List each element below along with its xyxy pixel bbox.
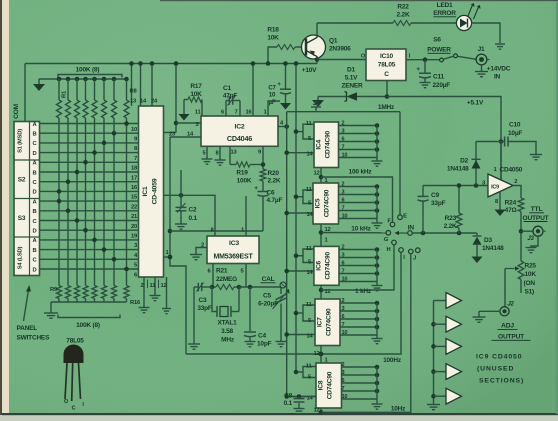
wire switch row to IC1 pin 22 — [40, 200, 139, 202]
resistor R22 — [393, 21, 411, 26]
svg-text:100 kHz: 100 kHz — [349, 169, 373, 176]
wire IC1 pin13 riser — [131, 64, 133, 107]
potentiometer R25 — [518, 261, 524, 280]
svg-text:R8: R8 — [129, 89, 137, 95]
resistor R6 — [102, 77, 107, 82]
ground at C4 — [245, 341, 256, 343]
svg-text:R21: R21 — [216, 268, 228, 275]
ground at IC3 pin2 — [190, 254, 202, 256]
wire IC1 pin24 riser — [151, 64, 153, 107]
resistor R24 — [518, 198, 524, 212]
svg-text:ZENER: ZENER — [341, 83, 363, 90]
wire IC3 pin2 — [196, 248, 207, 255]
wire IC3 pin6 — [212, 264, 214, 288]
page right edge — [556, 2, 558, 414]
resistor R23 — [458, 186, 460, 214]
junction R12 to row 12 — [83, 228, 88, 233]
wire IC1 pin11 to ground — [154, 277, 156, 296]
svg-text:10: 10 — [342, 153, 348, 159]
svg-text:100K (8): 100K (8) — [76, 67, 100, 74]
wire riser to IC2 pin3 — [176, 122, 201, 124]
resistor R18 — [277, 45, 295, 50]
ground at C7 — [280, 103, 291, 110]
svg-text:0.1: 0.1 — [284, 400, 293, 407]
wire switch row to IC1 pin 5 — [40, 258, 139, 260]
contact IN wiper — [408, 231, 413, 236]
svg-text:6: 6 — [342, 378, 345, 384]
svg-text:13: 13 — [130, 99, 137, 105]
wire IC1 to IC3 pin8 — [164, 195, 216, 236]
svg-text:IC5: IC5 — [315, 198, 322, 208]
junction R11 to row 11 — [75, 218, 80, 223]
svg-text:+: + — [416, 66, 420, 73]
wire 1kHz tap — [321, 245, 394, 290]
svg-text:J: J — [413, 256, 416, 262]
svg-text:13: 13 — [230, 150, 237, 156]
svg-text:2: 2 — [342, 121, 345, 127]
svg-text:100K (8): 100K (8) — [76, 322, 100, 329]
svg-text:22MEG: 22MEG — [216, 276, 237, 283]
svg-text:IC9 CD4050: IC9 CD4050 — [476, 354, 522, 361]
svg-text:7: 7 — [342, 206, 345, 212]
svg-text:7: 7 — [234, 110, 237, 116]
wire switch row to IC1 pin 6 — [40, 268, 139, 270]
ground at C3 — [188, 343, 200, 345]
svg-text:D: D — [33, 190, 37, 196]
wire IC7 pin 14 — [287, 334, 315, 336]
wire feedback riser — [170, 137, 186, 354]
svg-text:11: 11 — [306, 187, 313, 193]
svg-text:10: 10 — [269, 93, 276, 99]
crystal XTAL1 — [212, 287, 217, 312]
svg-text:17: 17 — [131, 175, 137, 181]
resistor R21 — [212, 286, 216, 288]
counter IC4 CD74C90 — [314, 122, 339, 168]
svg-text:7: 7 — [342, 145, 345, 151]
ground at IC1 pin11 — [150, 295, 161, 297]
svg-text:3: 3 — [342, 306, 345, 312]
svg-text:18: 18 — [131, 166, 138, 172]
svg-text:C3: C3 — [199, 297, 207, 304]
svg-text:IC9: IC9 — [491, 184, 499, 190]
svg-text:1 kHz: 1 kHz — [355, 288, 372, 295]
svg-text:2: 2 — [514, 179, 517, 185]
wire IC8 pin 12 cascade — [320, 408, 322, 412]
wire switch row to IC1 pin 21 — [40, 210, 139, 212]
svg-text:+10V: +10V — [302, 67, 317, 74]
wire IC1 pin14 riser — [140, 64, 142, 107]
78L05 package drawing — [64, 345, 84, 364]
svg-text:CD74C90: CD74C90 — [324, 189, 331, 217]
contact F — [390, 222, 395, 227]
junction R2 to row 7 — [66, 179, 71, 184]
svg-text:CD4046: CD4046 — [227, 134, 252, 143]
capacitor C9 — [422, 201, 424, 233]
svg-text:C5: C5 — [263, 293, 271, 300]
svg-text:6-20pF: 6-20pF — [258, 301, 278, 308]
svg-text:10: 10 — [342, 330, 348, 336]
svg-text:7: 7 — [342, 386, 345, 392]
svg-text:10: 10 — [131, 127, 137, 133]
svg-text:D1: D1 — [347, 67, 355, 74]
svg-text:C1: C1 — [223, 85, 231, 92]
diode D2 — [475, 142, 477, 186]
wire 10Hz tap — [321, 254, 411, 412]
ground at J3 — [526, 247, 537, 249]
contact J — [416, 248, 421, 253]
wire J1 to ground — [481, 65, 483, 72]
ground at IC2 pin5 — [206, 146, 208, 159]
svg-text:6: 6 — [342, 261, 345, 267]
wire COM bus riser — [24, 64, 26, 122]
svg-text:R18: R18 — [267, 27, 279, 34]
svg-text:3: 3 — [342, 253, 345, 259]
wire IC9 output — [513, 186, 521, 199]
svg-text:14: 14 — [306, 333, 313, 339]
ground at J1 — [475, 71, 488, 73]
svg-text:14: 14 — [140, 99, 147, 105]
resistor R5 — [92, 77, 97, 82]
resistor R11 — [75, 286, 80, 299]
svg-text:2.2K: 2.2K — [444, 223, 457, 230]
wire switch row to IC1 pin 17 — [40, 171, 139, 173]
svg-text:33pF: 33pF — [197, 305, 212, 312]
svg-text:D: D — [33, 267, 37, 273]
svg-text:21: 21 — [131, 214, 138, 220]
svg-text:IC10: IC10 — [380, 53, 394, 60]
wire IN line — [413, 232, 477, 234]
svg-text:47Ω: 47Ω — [505, 207, 517, 214]
capacitor C7 — [285, 64, 287, 89]
svg-text:R19: R19 — [236, 170, 248, 177]
ground at C11 — [420, 82, 431, 84]
svg-text:IC8: IC8 — [318, 380, 325, 390]
wire Q1 emitter to +10V rail — [316, 57, 318, 64]
wire IC1 pin2 to ground — [143, 277, 145, 308]
svg-text:IC1: IC1 — [142, 186, 149, 196]
wire unused buffer bus — [433, 301, 435, 405]
resistor R8 — [124, 77, 129, 82]
capacitor C10 — [476, 141, 505, 143]
svg-text:100K: 100K — [237, 178, 252, 185]
svg-text:2: 2 — [342, 182, 345, 188]
wire IC2 pin14 feedback — [170, 136, 201, 138]
resistor R12 — [83, 286, 88, 299]
buffer IC9 CD4050 — [488, 174, 513, 197]
trimmer capacitor C5 — [280, 287, 282, 294]
counter IC5 CD74C90 — [313, 183, 339, 224]
jack J1 — [476, 54, 487, 65]
svg-text:SWITCHES: SWITCHES — [17, 335, 51, 342]
ground stub near IC4 — [315, 107, 317, 112]
svg-text:J2: J2 — [507, 302, 514, 308]
wire VCO 1MHz rail — [286, 112, 288, 397]
svg-text:C: C — [72, 406, 76, 412]
page top edge — [160, 0, 558, 1]
svg-text:CD4050: CD4050 — [500, 167, 523, 174]
resistor R10 — [66, 286, 71, 299]
wire IC5 pin 14 — [287, 212, 313, 214]
junction R4 to row 5 — [83, 160, 88, 165]
wire IC7 pins 11 5 bracket — [303, 305, 315, 321]
svg-text:CD-4059: CD-4059 — [152, 178, 159, 204]
svg-text:220µF: 220µF — [433, 82, 451, 89]
svg-text:B: B — [33, 170, 37, 176]
svg-text:6: 6 — [342, 198, 345, 204]
svg-text:C7: C7 — [268, 86, 276, 92]
divider IC1 CD-4059 — [139, 106, 164, 277]
svg-text:10: 10 — [342, 214, 348, 220]
regulator IC10 78L05 — [366, 49, 406, 81]
svg-text:D2: D2 — [460, 158, 468, 165]
resistor R7 — [112, 77, 117, 82]
page bottom edge — [0, 415, 558, 421]
wire J3 shell to ground — [531, 236, 538, 247]
svg-text:20: 20 — [131, 224, 137, 230]
ground at IC2 pin8 — [219, 146, 221, 160]
junction R1 to row 8 — [57, 189, 62, 194]
ground at C10 — [530, 154, 542, 156]
svg-text:D: D — [33, 229, 37, 235]
svg-text:IN: IN — [408, 224, 415, 231]
resistor R14 — [102, 286, 107, 299]
wire switch row to IC1 pin 4 — [40, 249, 139, 251]
wire C6 to feedback riser — [170, 230, 263, 232]
svg-text:PANEL: PANEL — [17, 325, 38, 332]
wire switch row to IC1 pin 9 — [40, 132, 139, 134]
ground at bank bus — [38, 79, 40, 84]
contact G — [392, 240, 397, 245]
svg-text:C9: C9 — [431, 192, 439, 199]
svg-text:6: 6 — [342, 137, 345, 143]
svg-text:2: 2 — [342, 298, 345, 304]
wire 100kHz tap — [321, 177, 393, 222]
svg-text:Q1: Q1 — [329, 38, 338, 45]
svg-text:XTAL1: XTAL1 — [217, 320, 237, 327]
svg-text:3: 3 — [342, 370, 345, 376]
svg-text:C10: C10 — [509, 122, 521, 129]
svg-text:D: D — [33, 151, 37, 157]
svg-text:7: 7 — [342, 322, 345, 328]
ground at IC1 pin2 — [139, 307, 150, 309]
resistor R13 — [92, 286, 97, 299]
wire R18 to Q1 base — [295, 46, 306, 48]
svg-text:R24: R24 — [505, 200, 517, 207]
svg-text:10: 10 — [342, 277, 348, 283]
buffer IC9 unused section 1 — [434, 300, 447, 302]
resistor R9 — [57, 286, 62, 299]
contact I — [409, 249, 414, 254]
svg-text:POWER: POWER — [427, 47, 451, 54]
arrow to panel switches — [24, 290, 29, 321]
svg-text:C11: C11 — [433, 74, 445, 81]
svg-text:S4 (LSD): S4 (LSD) — [18, 246, 24, 269]
LED LED1 — [456, 15, 471, 30]
oscillator IC3 MM5369EST — [207, 236, 259, 264]
wire IC10 common pin — [386, 81, 388, 97]
svg-text:LED1: LED1 — [437, 2, 453, 9]
svg-text:100Hz: 100Hz — [383, 357, 402, 364]
wire IC6 pin 14 — [287, 270, 314, 272]
svg-text:10Hz: 10Hz — [391, 406, 406, 413]
wire IC8 pins 11 5 bracket — [303, 367, 316, 378]
wire IC4 pin 14 — [287, 152, 314, 154]
switch block S1-S4 outline — [14, 122, 40, 276]
resistor R3 — [75, 77, 80, 82]
ground at D3 — [472, 257, 483, 264]
svg-text:ERROR: ERROR — [433, 10, 456, 17]
wire Q1 collector to LED line — [316, 23, 318, 36]
svg-text:11: 11 — [150, 283, 157, 289]
ground at C8 — [294, 408, 305, 410]
junction R9 to row 9 — [57, 199, 62, 204]
wire IC3 pin1 riser — [245, 196, 247, 236]
junction R13 to row 13 — [92, 238, 97, 243]
wire switch row to IC1 pin 16 — [40, 181, 139, 183]
svg-text:2.2K: 2.2K — [268, 178, 281, 185]
counter IC8 CD74C90 — [316, 363, 342, 408]
svg-text:78L05: 78L05 — [66, 338, 84, 345]
svg-text:C2: C2 — [189, 207, 197, 214]
wire switch row to IC1 pin 15 — [40, 190, 139, 192]
wire +5.1V rail — [387, 97, 501, 181]
ground at R17 — [184, 99, 188, 101]
svg-text:0.1: 0.1 — [189, 215, 198, 222]
capacitor C3 — [194, 286, 198, 288]
svg-text:IC6: IC6 — [315, 260, 322, 270]
wire IC6 unused outputs to ground — [339, 249, 377, 251]
wire LED1 to ground — [472, 23, 500, 43]
wire IC5 pins 11 5 bracket — [303, 190, 313, 204]
junction R10 to row 10 — [66, 209, 71, 214]
wire switch row to IC1 pin 20 — [40, 220, 139, 222]
svg-text:12: 12 — [161, 283, 167, 289]
capacitor C4 — [249, 287, 251, 331]
wire IC9 pin8 to ground — [499, 192, 501, 210]
svg-text:11: 11 — [306, 246, 313, 252]
wire R24 to J3 and R25 — [520, 212, 522, 262]
ground at IC9 pin8 — [495, 210, 506, 217]
wire C3 to ground — [193, 287, 195, 344]
svg-text:E: E — [403, 214, 407, 220]
svg-text:11: 11 — [306, 363, 313, 369]
svg-text:19: 19 — [131, 234, 138, 240]
wire IC2 pin16 riser — [252, 64, 254, 117]
svg-text:14: 14 — [306, 152, 313, 158]
wire IC1 pin1 feedback — [164, 256, 171, 258]
svg-text:CD74C90: CD74C90 — [324, 252, 331, 280]
svg-text:3: 3 — [342, 129, 345, 135]
wire R22 to LED1 — [411, 22, 457, 24]
wire oscillator section to contact H — [186, 253, 401, 354]
wire IC1 pin23 riser — [175, 64, 177, 133]
buffer IC9 unused section 3 — [434, 345, 447, 347]
ground at C2 — [175, 223, 187, 225]
svg-text:S2: S2 — [18, 177, 26, 184]
svg-text:R17: R17 — [190, 83, 202, 90]
svg-text:12: 12 — [313, 171, 319, 177]
wire switch row to IC1 pin 18 — [40, 161, 139, 163]
svg-text:CD74C90: CD74C90 — [327, 371, 334, 399]
counter IC7 CD74C90 — [315, 299, 340, 346]
svg-text:1N4148: 1N4148 — [447, 166, 469, 173]
svg-text:16: 16 — [131, 185, 138, 191]
transistor Q1 — [302, 35, 326, 59]
wire IC6 pin 12 cascade — [320, 285, 322, 299]
svg-text:10K: 10K — [190, 91, 202, 98]
wire switch row to IC1 pin 8 — [40, 142, 139, 144]
wire IC3 pin5 — [245, 264, 247, 288]
wire IC2 pin4 VCO out — [278, 126, 287, 128]
wire IC4 pin 12 cascade — [320, 168, 322, 184]
svg-text:C8: C8 — [284, 393, 292, 400]
svg-text:R23: R23 — [445, 215, 457, 222]
wire IC8 pin 14 — [287, 396, 316, 398]
wire IC7 unused outputs to ground — [340, 302, 377, 304]
svg-text:COM: COM — [13, 103, 20, 118]
wire IC10 input to switch S6 — [406, 59, 439, 61]
ground at buffer bus — [427, 404, 440, 406]
wire S6 to jack J1 — [458, 56, 477, 59]
wire resistor bank bottom bus — [51, 301, 127, 303]
svg-text:CD74C90: CD74C90 — [325, 130, 332, 158]
wire IC8 unused outputs to ground — [342, 366, 378, 368]
jack J3 — [533, 226, 543, 236]
zener diode D1 — [318, 96, 346, 98]
svg-text:IC7: IC7 — [317, 317, 324, 327]
wire IC4 pins 11 5 bracket — [303, 124, 314, 139]
wire wiper to J2 — [504, 269, 506, 307]
resistor R17 — [201, 100, 203, 117]
svg-text:(ON: (ON — [524, 280, 536, 287]
wire resistor bank top bus — [39, 78, 127, 80]
svg-text:CD74C90: CD74C90 — [326, 308, 333, 336]
counter IC6 CD74C90 — [314, 246, 339, 285]
svg-text:R9: R9 — [50, 287, 58, 293]
svg-text:11: 11 — [195, 110, 202, 116]
svg-text:S1): S1) — [525, 289, 535, 296]
svg-text:O: O — [64, 399, 68, 405]
svg-text:2: 2 — [342, 245, 345, 251]
ground at IC4 outputs — [372, 160, 383, 162]
svg-text:+5.1V: +5.1V — [467, 100, 484, 107]
wire J2 to ground — [479, 310, 500, 312]
resistor R4 — [83, 77, 88, 82]
wire R18 branch riser — [268, 47, 277, 64]
wire buffer input line — [423, 185, 488, 187]
svg-text:11: 11 — [306, 302, 313, 308]
svg-text:1MHz: 1MHz — [378, 104, 395, 111]
capacitor C2 — [180, 170, 182, 207]
svg-text:B: B — [33, 209, 37, 215]
adjust screw symbol — [280, 282, 286, 288]
svg-text:12: 12 — [313, 351, 319, 357]
svg-text:2N3906: 2N3906 — [329, 46, 351, 53]
capacitor C6 — [262, 181, 264, 191]
jack J2 — [500, 307, 509, 316]
junction R15 to row 15 — [112, 257, 117, 262]
svg-text:R16: R16 — [130, 300, 141, 306]
svg-text:33pF: 33pF — [431, 200, 446, 207]
junction R6 to row 3 — [102, 141, 107, 146]
ground at IC5 outputs — [372, 222, 383, 224]
svg-text:10 kHz: 10 kHz — [351, 226, 371, 233]
svg-text:1N4148: 1N4148 — [482, 245, 504, 252]
contact H — [399, 248, 404, 253]
svg-text:B: B — [33, 248, 37, 254]
svg-text:MHz: MHz — [221, 337, 235, 344]
svg-text:16: 16 — [245, 110, 252, 116]
